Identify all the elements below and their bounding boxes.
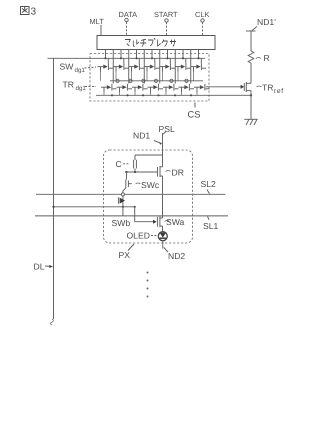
- svg-text:TR: TR: [63, 80, 74, 90]
- svg-text:ref: ref: [274, 88, 284, 95]
- svg-text:CLK: CLK: [195, 10, 209, 19]
- svg-text:SWb: SWb: [112, 218, 131, 228]
- svg-text:OLED: OLED: [127, 231, 150, 241]
- svg-text:SL2: SL2: [201, 179, 217, 189]
- svg-text:START: START: [154, 10, 178, 19]
- svg-text:PSL: PSL: [159, 124, 175, 134]
- svg-text:DL: DL: [34, 262, 45, 272]
- svg-text:dg1: dg1: [76, 85, 87, 92]
- svg-text:3: 3: [31, 7, 37, 18]
- svg-text:PX: PX: [119, 250, 131, 260]
- svg-text:dg1: dg1: [75, 67, 86, 74]
- svg-text:ND2: ND2: [168, 251, 185, 261]
- svg-text:CS: CS: [188, 110, 201, 120]
- svg-text:ND1: ND1: [133, 130, 150, 140]
- svg-text:C: C: [116, 159, 122, 169]
- svg-text:TR: TR: [262, 83, 273, 93]
- svg-text:SL1: SL1: [203, 221, 219, 231]
- svg-text:MLT: MLT: [90, 17, 105, 26]
- svg-text:SWc: SWc: [141, 180, 160, 190]
- svg-text:SWa: SWa: [166, 217, 185, 227]
- svg-text:SW: SW: [60, 62, 75, 72]
- svg-text:R: R: [264, 53, 270, 63]
- svg-text:DATA: DATA: [119, 10, 138, 19]
- svg-text:DR: DR: [172, 168, 184, 178]
- svg-text:ND1': ND1': [257, 17, 276, 27]
